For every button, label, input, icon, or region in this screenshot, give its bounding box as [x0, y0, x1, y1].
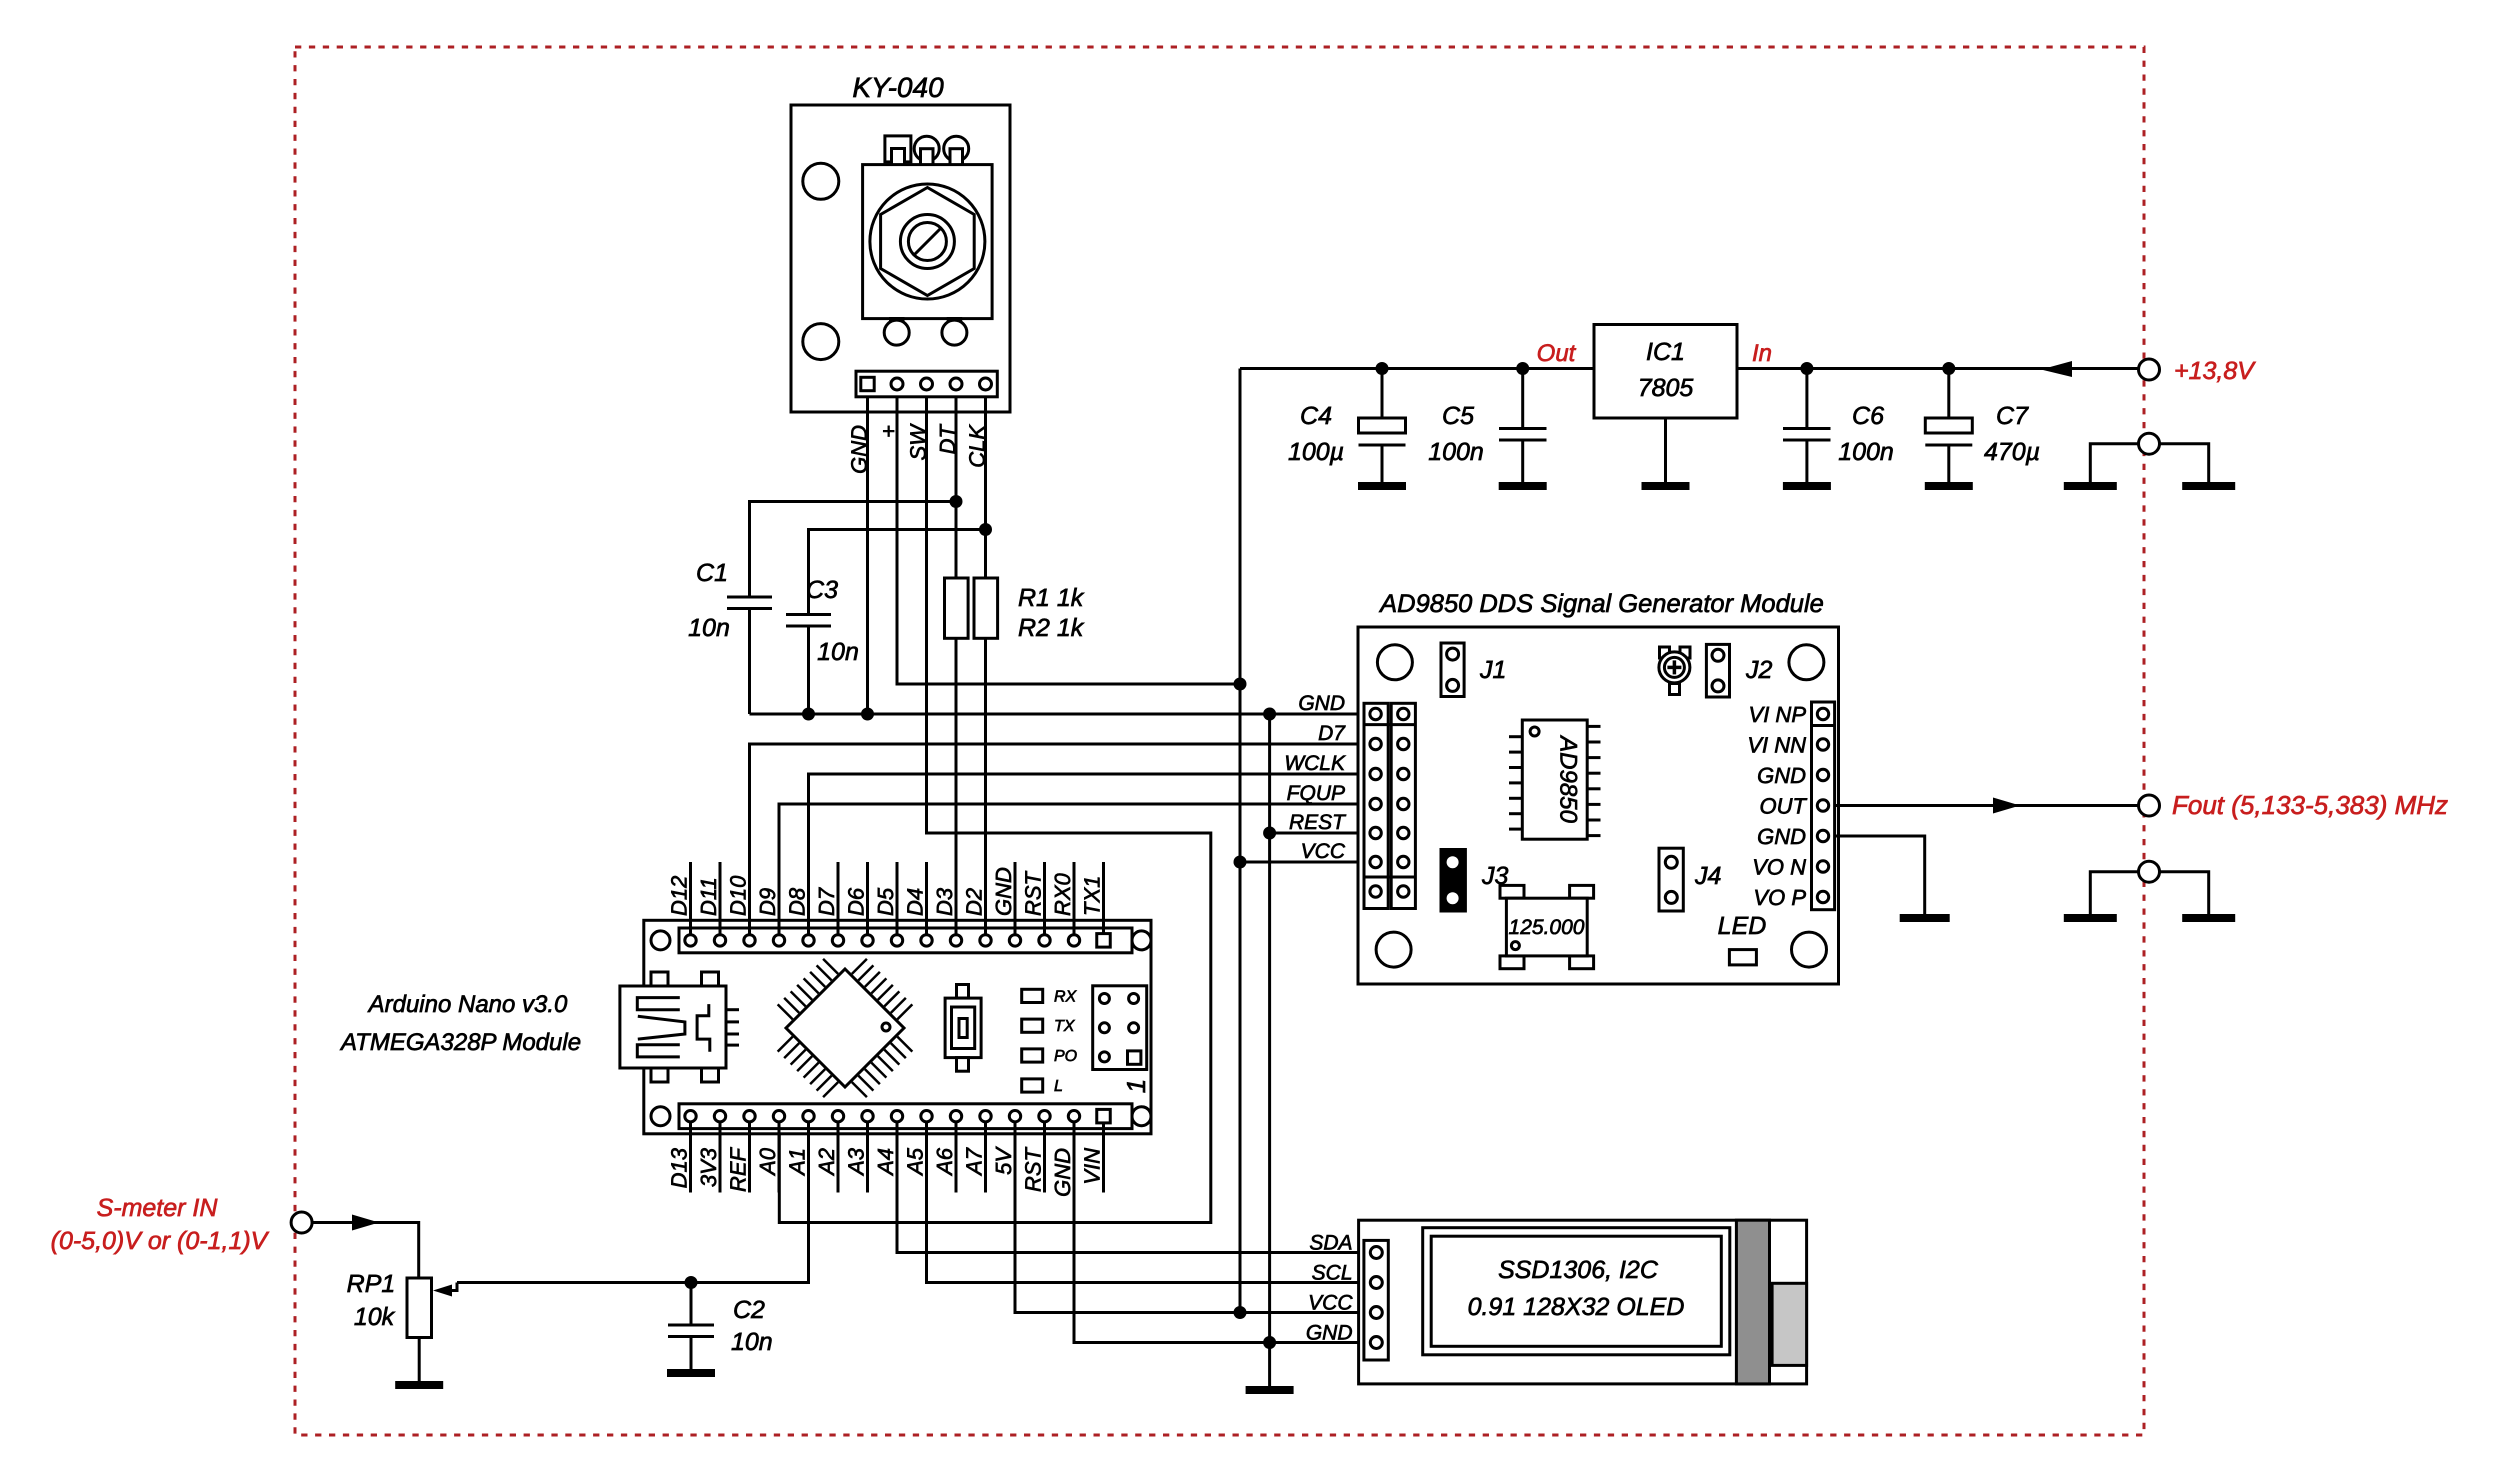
connector S-meter: [291, 1212, 312, 1233]
svg-text:AD9850: AD9850: [1555, 734, 1582, 823]
wire GND to OLED GND: [1074, 1124, 1376, 1343]
top pin stubs: [689, 862, 692, 940]
junction GND/OLED: [1263, 1336, 1276, 1349]
svg-text:J4: J4: [1694, 862, 1721, 890]
junction DT/C1: [950, 495, 963, 508]
board hole: [1132, 931, 1151, 950]
svg-text:A6: A6: [932, 1147, 957, 1177]
KY header pin GND (square): [861, 377, 874, 390]
arrow into +13,8V rail: [2041, 361, 2072, 377]
ground: [1246, 1386, 1294, 1394]
svg-text:Fout (5,133-5,383) MHz: Fout (5,133-5,383) MHz: [2172, 790, 2448, 820]
svg-text:C4: C4: [1300, 402, 1332, 430]
svg-text:10n: 10n: [731, 1328, 773, 1356]
svg-text:KY-040: KY-040: [852, 72, 944, 103]
ground: [1358, 482, 1406, 490]
capacitor C6: [1805, 369, 1808, 429]
ground: [1783, 482, 1831, 490]
junction C3/GND: [802, 708, 815, 721]
svg-text:125.000: 125.000: [1509, 916, 1585, 939]
wire GND out: [1835, 836, 1925, 914]
svg-text:A3: A3: [844, 1147, 869, 1177]
bottom pin header strip: [679, 1104, 1132, 1129]
Arduino Nano module board: [644, 920, 1151, 1134]
svg-text:+: +: [876, 425, 901, 438]
ground: [2182, 482, 2235, 490]
RP1 wiper: [433, 1285, 452, 1297]
svg-text:J1: J1: [1479, 656, 1506, 684]
svg-text:1: 1: [1121, 1079, 1151, 1093]
svg-text:C5: C5: [1442, 402, 1474, 430]
capacitor C3: [809, 530, 986, 615]
USB connector: [620, 986, 726, 1068]
wire wiper to A1: [457, 1124, 809, 1283]
svg-text:100n: 100n: [1428, 438, 1484, 466]
svg-text:GND: GND: [991, 867, 1016, 916]
svg-text:D7: D7: [814, 887, 839, 916]
svg-text:GND: GND: [1757, 824, 1806, 849]
svg-text:SSD1306, I2C: SSD1306, I2C: [1498, 1256, 1659, 1284]
KY header pin CLK: [980, 378, 992, 390]
jumper J4: [1659, 848, 1683, 911]
capacitor C5: [1521, 369, 1524, 429]
svg-text:GND: GND: [1757, 763, 1806, 788]
ground: [1925, 482, 1973, 490]
wire: [2160, 444, 2209, 482]
svg-text:D10: D10: [726, 875, 751, 916]
svg-text:5V: 5V: [991, 1146, 1016, 1175]
svg-text:D8: D8: [785, 887, 810, 916]
connector +13,8V: [2139, 359, 2160, 380]
junction: [1516, 362, 1529, 375]
SSD1306 OLED module: [1359, 1220, 1807, 1384]
svg-text:D13: D13: [667, 1147, 692, 1188]
svg-text:WCLK: WCLK: [1284, 752, 1346, 775]
capacitor C7: [1947, 369, 1950, 419]
svg-text:Arduino Nano v3.0: Arduino Nano v3.0: [367, 991, 568, 1018]
wire 5V to OLED VCC: [1015, 1124, 1376, 1313]
usb finger mid: [638, 1016, 685, 1039]
svg-text:+13,8V: +13,8V: [2174, 357, 2256, 385]
KY header pin +: [891, 378, 903, 390]
junction: [1376, 362, 1389, 375]
svg-text:D12: D12: [667, 876, 692, 916]
svg-text:(0-5,0)V or (0-1,1)V: (0-5,0)V or (0-1,1)V: [51, 1227, 270, 1255]
mounting hole: [1789, 645, 1824, 680]
shaft slot: [914, 228, 941, 255]
ground: [1499, 482, 1547, 490]
dashed red border: [295, 47, 2144, 1435]
svg-text:SDA: SDA: [1309, 1232, 1352, 1255]
svg-text:ATMEGA328P Module: ATMEGA328P Module: [339, 1029, 581, 1056]
ground: [1900, 914, 1950, 922]
top pin header strip: [679, 928, 1132, 953]
svg-text:LED: LED: [1718, 912, 1767, 940]
mounting hole: [803, 163, 839, 199]
wire RP1 to ground: [418, 1338, 421, 1382]
bottom pin stubs: [689, 1116, 692, 1192]
left dual-row header: [1364, 703, 1388, 908]
svg-text:REF: REF: [726, 1146, 751, 1192]
svg-text:D7: D7: [1318, 722, 1346, 745]
encoder pins (bottom): [891, 319, 904, 334]
svg-text:AD9850 DDS Signal Generator Mo: AD9850 DDS Signal Generator Module: [1378, 590, 1824, 618]
svg-text:VI NN: VI NN: [1747, 733, 1806, 758]
ground: [667, 1369, 715, 1377]
svg-text:100µ: 100µ: [1288, 438, 1344, 466]
svg-text:A7: A7: [962, 1147, 987, 1177]
wire D9 to AD9850 FQUP: [779, 804, 1376, 932]
svg-text:D9: D9: [755, 888, 780, 916]
svg-text:R2 1k: R2 1k: [1018, 614, 1085, 642]
capacitor C2: [690, 1283, 693, 1326]
junction VCC/OLED: [1234, 1306, 1247, 1319]
jumper J3 (closed): [1441, 850, 1465, 912]
wire +5V/13.8V power rail: [1240, 367, 2138, 370]
svg-text:100n: 100n: [1838, 438, 1894, 466]
wire KY GND: [866, 397, 869, 714]
LEDs RX TX PO L: [1022, 989, 1043, 1002]
connector Fout: [2139, 795, 2160, 816]
wire D8 to AD9850 WCLK: [809, 774, 1376, 932]
svg-text:10n: 10n: [688, 614, 730, 642]
svg-text:RST: RST: [1021, 1146, 1046, 1192]
svg-text:RP1: RP1: [347, 1270, 396, 1298]
wire OUT: [1835, 804, 2138, 807]
encoder shaft: [900, 215, 954, 269]
mounting hole: [1377, 645, 1412, 680]
svg-text:RX: RX: [1054, 988, 1078, 1005]
svg-text:D6: D6: [844, 887, 869, 916]
svg-text:R1 1k: R1 1k: [1018, 584, 1085, 612]
arrow S-meter: [352, 1215, 379, 1231]
crystal 125.000: [1500, 885, 1524, 898]
ground: [2064, 482, 2117, 490]
capacitor C4: [1381, 369, 1384, 419]
svg-text:0.91 128X32 OLED: 0.91 128X32 OLED: [1468, 1293, 1685, 1321]
encoder body: [863, 165, 993, 319]
OLED display area: [1423, 1228, 1730, 1355]
wire to ground: [1268, 1343, 1271, 1387]
KY header pin SW: [921, 378, 933, 390]
wire REST to GND net: [1270, 832, 1376, 835]
svg-text:PO: PO: [1054, 1048, 1077, 1065]
OLED pin header: [1364, 1240, 1388, 1360]
reset button: [957, 985, 969, 999]
wire KY SW to A0: [779, 397, 1211, 1223]
svg-text:D2: D2: [962, 888, 987, 916]
wire: [2090, 444, 2138, 482]
svg-text:SCL: SCL: [1312, 1262, 1353, 1285]
resistor R1: [945, 578, 969, 638]
svg-text:VCC: VCC: [1308, 1292, 1353, 1315]
svg-text:CLK: CLK: [965, 424, 990, 468]
usb latch: [697, 1004, 710, 1052]
right header: [1812, 702, 1835, 910]
ground: [1642, 482, 1690, 490]
svg-text:D3: D3: [932, 887, 957, 916]
svg-text:D4: D4: [903, 888, 928, 916]
chassis ground connector (top right): [2139, 433, 2160, 454]
OLED flex connector (dark): [1736, 1220, 1769, 1384]
svg-text:FQUP: FQUP: [1287, 782, 1345, 805]
svg-text:VIN: VIN: [1080, 1148, 1105, 1185]
svg-text:TX1: TX1: [1080, 876, 1105, 916]
svg-text:470µ: 470µ: [1984, 438, 2040, 466]
ground: [2182, 914, 2235, 922]
mounting hole: [1376, 932, 1411, 967]
svg-text:D11: D11: [696, 877, 721, 916]
svg-text:A2: A2: [814, 1148, 839, 1177]
jumper J2: [1706, 644, 1729, 697]
board hole: [651, 931, 670, 950]
svg-text:In: In: [1752, 340, 1772, 367]
wire A5 to SCL: [927, 1124, 1377, 1283]
arrow OUT: [1993, 798, 2020, 814]
regulator IC1 7805: [1594, 325, 1737, 419]
encoder ring: [870, 184, 985, 299]
svg-text:DT: DT: [935, 423, 960, 454]
svg-text:S-meter IN: S-meter IN: [97, 1194, 219, 1222]
encoder hex nut: [881, 188, 975, 296]
ground: [395, 1381, 443, 1389]
wire GND vertical: [1268, 714, 1271, 1343]
top header pins: [685, 935, 696, 946]
svg-text:Out: Out: [1537, 340, 1577, 367]
junction: [1800, 362, 1813, 375]
svg-text:IC1: IC1: [1646, 338, 1685, 366]
svg-text:GND: GND: [1050, 1148, 1075, 1197]
ground: [2064, 914, 2117, 922]
svg-text:VCC: VCC: [1301, 840, 1346, 863]
wire GND rail: [750, 713, 1376, 716]
wire A4 to SDA: [897, 1124, 1376, 1253]
wire KY DT to D3: [955, 397, 958, 933]
svg-text:RST: RST: [1021, 870, 1046, 916]
KY header pin DT: [950, 378, 962, 390]
junction VCC: [1234, 856, 1247, 869]
junction + / 5V vertical: [1234, 678, 1247, 691]
resistor R2: [974, 578, 998, 638]
svg-text:GND: GND: [1298, 692, 1345, 715]
wire VCC: [1240, 861, 1376, 864]
OLED side tab (light): [1772, 1283, 1807, 1365]
svg-text:GND: GND: [1306, 1322, 1353, 1345]
svg-text:D5: D5: [873, 887, 898, 916]
junction GND rail/vertical: [1263, 708, 1276, 721]
svg-text:VI NP: VI NP: [1749, 702, 1807, 727]
capacitor C1: [750, 502, 957, 598]
svg-text:C1: C1: [696, 559, 728, 587]
svg-text:7805: 7805: [1638, 374, 1694, 402]
wire VCC vertical: [1239, 369, 1242, 1313]
svg-text:C3: C3: [806, 576, 838, 604]
svg-text:C6: C6: [1852, 402, 1884, 430]
board hole: [651, 1107, 670, 1126]
AD9850 chip: [1522, 720, 1587, 839]
bottom header pins: [685, 1111, 696, 1122]
usb finger bottom: [637, 1045, 680, 1057]
wire KY + to 5V: [897, 397, 1240, 684]
junction: [1942, 362, 1955, 375]
usb finger top: [637, 998, 680, 1010]
svg-text:VO N: VO N: [1752, 855, 1806, 880]
trimmer: [1660, 647, 1670, 658]
svg-text:L: L: [1054, 1078, 1063, 1095]
encoder pins (top): [885, 136, 911, 162]
svg-text:10n: 10n: [817, 638, 859, 666]
svg-text:A5: A5: [903, 1147, 928, 1177]
mounting hole: [1792, 932, 1827, 967]
ATMEGA328P chip: [786, 969, 904, 1087]
mounting hole: [803, 324, 839, 360]
svg-text:A4: A4: [873, 1148, 898, 1177]
board hole: [1132, 1107, 1151, 1126]
junction REST/GND vertical: [1263, 827, 1276, 840]
shaft slot circle: [908, 223, 946, 261]
wire D10 to AD9850 D7: [750, 744, 1376, 932]
svg-text:10k: 10k: [354, 1303, 396, 1331]
chassis ground connector (right): [2139, 861, 2160, 882]
wire KY CLK to D2: [984, 397, 987, 933]
svg-text:RX0: RX0: [1050, 872, 1075, 916]
svg-text:OUT: OUT: [1760, 794, 1808, 819]
svg-text:REST: REST: [1289, 811, 1347, 834]
svg-text:GND: GND: [847, 425, 872, 474]
svg-text:A0: A0: [755, 1147, 780, 1177]
KY-040 pin header: [856, 371, 997, 397]
junction CLK/C3: [979, 523, 992, 536]
junction C2: [685, 1276, 698, 1289]
svg-text:VO P: VO P: [1753, 885, 1806, 910]
svg-text:C7: C7: [1996, 402, 2029, 430]
svg-text:SW: SW: [906, 423, 931, 461]
svg-text:C2: C2: [733, 1296, 765, 1324]
junction KY GND: [861, 708, 874, 721]
svg-text:3V3: 3V3: [696, 1147, 721, 1187]
ICSP header: [1093, 986, 1147, 1070]
potentiometer RP1: [407, 1278, 432, 1338]
svg-text:TX: TX: [1054, 1018, 1076, 1035]
svg-text:J2: J2: [1745, 656, 1773, 684]
wire S-meter to RP1: [312, 1223, 419, 1279]
svg-text:A1: A1: [785, 1148, 810, 1177]
jumper J1: [1441, 643, 1464, 697]
